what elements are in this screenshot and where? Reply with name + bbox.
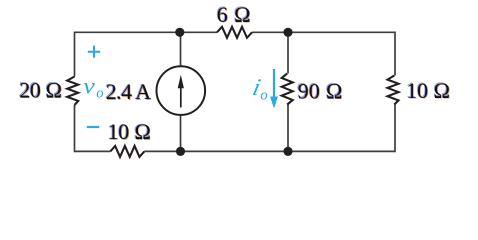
- minus sign (vo polarity): [87, 126, 99, 128]
- label 10 ohm bottom: [107, 119, 152, 145]
- wire top: [75, 31, 396, 33]
- junction dot bottom-left (current source / bottom wire): [176, 147, 185, 156]
- svg-text:20 Ω: 20 Ω: [19, 77, 62, 102]
- label 6 ohm: [216, 1, 252, 27]
- svg-text:v: v: [83, 74, 95, 99]
- resistor 10 ohm (bottom): [110, 146, 144, 157]
- wire right: [394, 32, 396, 153]
- label vo: [83, 74, 103, 102]
- current arrow io: [270, 69, 278, 109]
- resistor 10 ohm (right): [388, 76, 399, 105]
- junction dot bottom-right (90 ohm / bottom wire): [283, 147, 292, 156]
- junction dot top-left (current source / top wire): [175, 28, 184, 37]
- resistor 6 ohm (top): [217, 27, 252, 38]
- plus sign (vo polarity): [88, 46, 100, 58]
- svg-text:o: o: [260, 87, 268, 103]
- label 10 ohm right: [405, 77, 451, 103]
- resistor 90 ohm (middle branch): [282, 74, 293, 105]
- junction dot top-right (90 ohm / top wire): [283, 28, 292, 37]
- label io: [250, 74, 268, 103]
- wire left: [74, 32, 76, 153]
- label 20 ohm: [18, 77, 63, 103]
- svg-text:2.4 A: 2.4 A: [106, 79, 152, 104]
- svg-text:o: o: [96, 86, 103, 102]
- label 2.4 A: [105, 78, 152, 104]
- resistor 20 ohm (left): [67, 77, 78, 106]
- wire 90-ohm branch: [287, 32, 289, 151]
- svg-text:10 Ω: 10 Ω: [108, 119, 152, 144]
- current source arrow: [178, 75, 184, 108]
- wire current-source branch: [180, 32, 182, 151]
- current source 2.4 A (circle): [157, 66, 206, 115]
- svg-text:90 Ω: 90 Ω: [298, 78, 343, 103]
- label 90 ohm: [297, 78, 344, 104]
- svg-text:6 Ω: 6 Ω: [217, 2, 251, 27]
- wire bottom: [75, 150, 396, 152]
- svg-text:10 Ω: 10 Ω: [406, 78, 450, 103]
